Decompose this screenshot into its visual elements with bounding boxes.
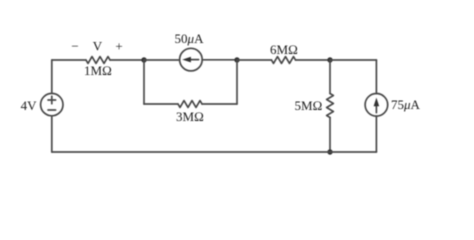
svg-text:75μA: 75μA bbox=[391, 97, 421, 112]
voltage source V1 (4V, + top / - bottom) bbox=[41, 93, 63, 115]
current source I2 (75uA, arrow pointing up) bbox=[365, 94, 388, 117]
wire: R3 to node D bbox=[296, 59, 331, 61]
current source I1 (50uA, arrow pointing left) bbox=[180, 48, 203, 71]
resistor R2 3M ohm bbox=[178, 101, 202, 108]
svg-text:1MΩ: 1MΩ bbox=[84, 63, 112, 78]
wire: R1 to node B bbox=[110, 59, 144, 61]
wire: R4 down to node G bbox=[329, 118, 331, 153]
wire: V1 top to top-left corner bbox=[51, 60, 53, 93]
svg-text:+: + bbox=[115, 39, 122, 54]
wire: node B to current source I1 bbox=[144, 59, 180, 61]
resistor R4 5M ohm (vertical) bbox=[327, 94, 334, 118]
svg-text:−: − bbox=[71, 38, 78, 53]
resistor R3 6M ohm bbox=[272, 57, 296, 64]
node C (junction dot) bbox=[234, 57, 239, 62]
wire: loop bottom left to R2 bbox=[144, 103, 178, 105]
svg-text:V: V bbox=[93, 39, 103, 54]
node B (junction dot) bbox=[141, 57, 146, 62]
resistor R1 1M ohm bbox=[86, 57, 110, 64]
node D (junction dot) bbox=[327, 57, 332, 62]
svg-text:50μA: 50μA bbox=[175, 31, 205, 46]
svg-text:5MΩ: 5MΩ bbox=[294, 98, 322, 113]
wire: node C to R3 bbox=[237, 59, 272, 61]
wire: top-left horizontal to R1 bbox=[52, 59, 86, 61]
wire: R2 to loop right side bbox=[202, 103, 237, 105]
wire: node D down to R4 bbox=[329, 60, 331, 94]
svg-text:6MΩ: 6MΩ bbox=[270, 42, 298, 57]
wire: I2 bottom down to bottom-right corner bbox=[375, 116, 377, 152]
svg-text:4V: 4V bbox=[21, 98, 38, 113]
wire: loop left side (node B down) bbox=[143, 60, 145, 104]
node G (junction dot on bottom wire) bbox=[327, 149, 332, 154]
wire: node D to top-right corner bbox=[330, 59, 376, 61]
wire: bottom horizontal rail bbox=[52, 151, 377, 153]
wire: V1 bottom down to bottom-left corner bbox=[51, 116, 53, 152]
wire: top-right corner down to I2 bbox=[375, 60, 377, 94]
wire: loop right side (up to node C) bbox=[236, 60, 238, 104]
wire: I1 to node C bbox=[202, 59, 237, 61]
svg-text:3MΩ: 3MΩ bbox=[176, 109, 204, 124]
